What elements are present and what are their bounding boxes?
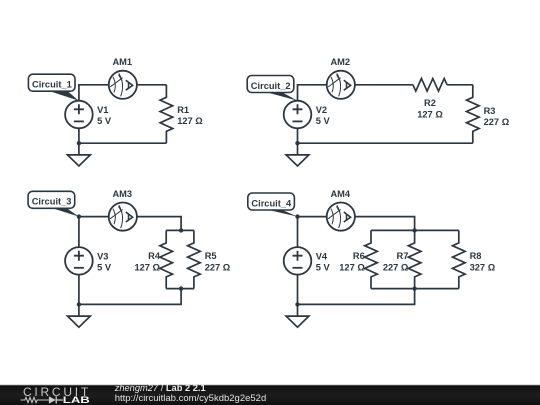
wire V2 bottom [297, 128, 299, 143]
ground circuit4 [286, 316, 309, 327]
svg-text:V4: V4 [316, 251, 328, 261]
svg-text:5 V: 5 V [316, 263, 331, 273]
wire V1 bottom [78, 128, 80, 143]
ground circuit1 [68, 155, 91, 166]
svg-text:AM1: AM1 [112, 57, 132, 67]
svg-text:Circuit_4: Circuit_4 [251, 198, 292, 208]
wire corner to AM4 [298, 216, 327, 218]
resistor R5 [188, 230, 231, 288]
resistor R3 [467, 85, 510, 143]
resistor R4 [134, 230, 172, 288]
svg-text:R7: R7 [397, 251, 409, 261]
svg-text:Circuit_2: Circuit_2 [251, 81, 291, 91]
svg-text:R6: R6 [353, 251, 365, 261]
svg-text:zhengm27 / Lab 2 2.1: zhengm27 / Lab 2 2.1 [114, 383, 206, 393]
svg-text:V1: V1 [97, 105, 108, 115]
wire node to ground c3 [78, 304, 80, 316]
svg-text:127 Ω: 127 Ω [417, 109, 443, 119]
svg-text:327 Ω: 327 Ω [470, 262, 496, 272]
resistor R7 [383, 230, 421, 288]
junction node top c4 [295, 214, 299, 218]
node label Circuit_3 callout [28, 191, 79, 216]
svg-text:AM3: AM3 [112, 189, 132, 199]
svg-text:Circuit_3: Circuit_3 [32, 197, 72, 207]
voltage source V2 [284, 101, 312, 129]
svg-text:R5: R5 [205, 251, 217, 261]
wire R2 to R3 [447, 84, 473, 86]
wire AM4 to parallel block [355, 217, 415, 231]
voltage source V4 [284, 247, 312, 275]
svg-text:LAB: LAB [63, 395, 90, 405]
junction node bottom c4 [295, 302, 299, 306]
junction node circuit1 [77, 141, 81, 145]
svg-text:127 Ω: 127 Ω [177, 116, 203, 126]
label AM4 [330, 189, 350, 199]
label V2 value [316, 105, 331, 126]
svg-text:R1: R1 [177, 105, 189, 115]
junction node circuit2 [295, 141, 299, 145]
label V3 value [97, 251, 112, 272]
resistor R2 (horizontal) [413, 79, 447, 120]
resistor R1 [160, 85, 203, 143]
label V1 value [97, 105, 112, 126]
svg-text:http://circuitlab.com/cy5kdb2g: http://circuitlab.com/cy5kdb2g2e52d [115, 393, 267, 404]
svg-text:127 Ω: 127 Ω [339, 262, 365, 272]
wire AM3 to parallel block [137, 217, 181, 231]
resistor R8 [453, 230, 496, 288]
junction rail-top c3 [179, 228, 183, 232]
svg-text:Circuit_1: Circuit_1 [32, 80, 72, 90]
svg-text:V2: V2 [316, 105, 327, 115]
svg-text:R4: R4 [148, 251, 161, 261]
svg-text:V3: V3 [97, 251, 108, 261]
node label Circuit_1 callout [28, 74, 78, 100]
wire rail bottom c3 [166, 288, 194, 290]
wire V3 bottom [78, 275, 80, 305]
svg-text:5 V: 5 V [316, 116, 331, 126]
svg-text:227 Ω: 227 Ω [205, 262, 231, 272]
svg-text:R8: R8 [470, 251, 482, 261]
ammeter AM2 [327, 71, 355, 99]
junction rail-top c4 [412, 228, 416, 232]
wire parallel block to bottom c4 [298, 289, 415, 305]
label V4 value [316, 251, 331, 272]
node label Circuit_2 callout [247, 76, 297, 101]
junction rail-bottom c3 [179, 286, 183, 290]
junction rail-bottom c4 [412, 286, 416, 290]
svg-text:AM2: AM2 [330, 57, 350, 67]
label AM3 [112, 189, 132, 199]
wire rail top c3 [166, 229, 194, 231]
svg-text:AM4: AM4 [330, 189, 350, 199]
node label Circuit_4 callout [248, 193, 298, 217]
ammeter AM3 [109, 203, 137, 231]
wire V1-top to AM1 [79, 85, 109, 101]
wire V4 bottom [297, 275, 299, 305]
footer credit text [114, 383, 267, 404]
ground circuit2 [286, 155, 309, 166]
svg-text:R3: R3 [484, 106, 496, 116]
wire rail top c4 [371, 229, 459, 231]
wire R3 bottom to node c2 [298, 142, 473, 144]
svg-text:227 Ω: 227 Ω [484, 117, 510, 127]
wire V4 top [297, 217, 299, 248]
wire R1 bottom to node [79, 142, 166, 144]
junction node bottom c3 [77, 302, 81, 306]
CircuitLab logo [21, 385, 91, 405]
svg-text:5 V: 5 V [97, 263, 112, 273]
voltage source V1 [65, 101, 93, 129]
ground circuit3 [68, 316, 91, 327]
wire node to ground c4 [297, 304, 299, 316]
ammeter AM1 [109, 71, 137, 99]
wire parallel block to bottom c3 [79, 289, 181, 305]
voltage source V3 [65, 247, 93, 275]
svg-text:127 Ω: 127 Ω [134, 262, 160, 272]
wire V3 top [78, 217, 80, 248]
wire rail bottom c4 [371, 288, 459, 290]
svg-text:R2: R2 [424, 98, 436, 108]
svg-text:5 V: 5 V [97, 116, 112, 126]
label AM1 [112, 57, 132, 67]
junction node top c3 [77, 214, 81, 218]
wire V2-top to AM2 [298, 85, 327, 101]
resistor R6 [339, 230, 377, 288]
wire corner to AM3 [79, 216, 109, 218]
label AM2 [330, 57, 350, 67]
wire AM2 to R2 [355, 84, 413, 86]
wire node to ground c2 [297, 143, 299, 155]
svg-text:227 Ω: 227 Ω [383, 262, 409, 272]
wire node to ground c1 [78, 143, 80, 155]
ammeter AM4 [327, 203, 355, 231]
wire AM1 to R1 [137, 84, 167, 86]
